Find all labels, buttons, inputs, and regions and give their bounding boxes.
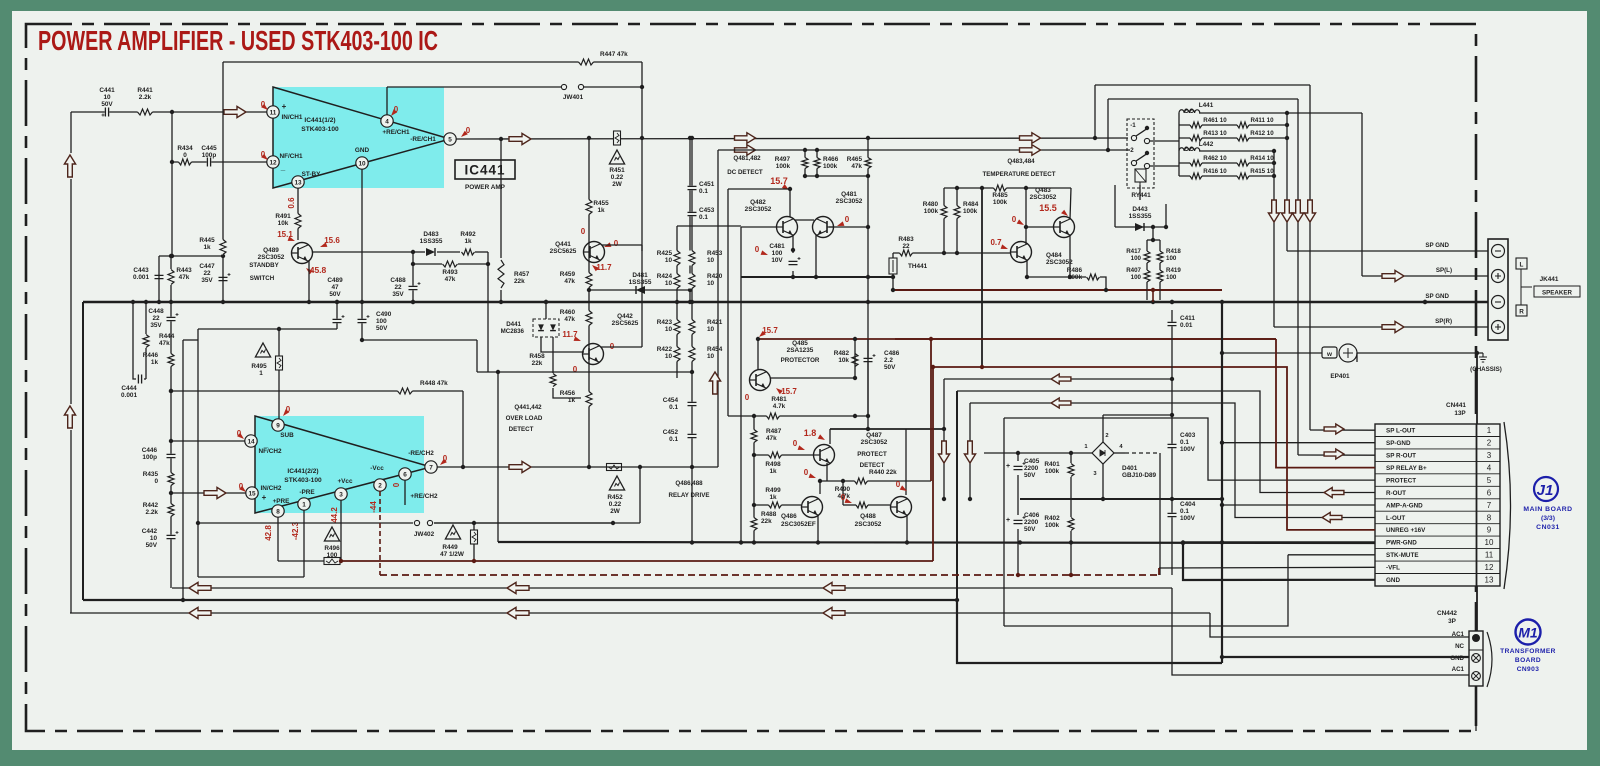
svg-text:Q481: Q481 (841, 191, 857, 198)
wire sp down 1 (1309, 85, 1311, 201)
svg-text:-44: -44 (369, 501, 378, 513)
svg-text:2SC3052: 2SC3052 (1046, 259, 1073, 266)
svg-text:50V: 50V (1024, 526, 1036, 533)
svg-text:R413 10: R413 10 (1203, 130, 1227, 137)
wire Q487 emitter down (826, 463, 828, 481)
wire C490 bottom link (362, 339, 477, 341)
resistor R466 (813, 158, 821, 169)
svg-text:100: 100 (1131, 255, 1142, 262)
resistor R421 (688, 320, 696, 335)
svg-text:STK403-100: STK403-100 (284, 477, 322, 484)
wire x1172 caps (1171, 310, 1173, 575)
wire y329 (198, 328, 337, 330)
wire PWR-GND row (1183, 541, 1375, 543)
junction relay top (1093, 136, 1097, 140)
capacitor C454 (687, 402, 697, 407)
relay RY441 box (1127, 119, 1154, 188)
wire Q484 base row (893, 252, 1010, 254)
wire ladder left x677 (676, 226, 678, 378)
svg-text:_: _ (280, 163, 286, 172)
svg-text:2: 2 (1487, 438, 1492, 447)
resistor R481 (767, 412, 780, 420)
arrow DC detect 1 (735, 133, 756, 144)
connector CN441 table (1375, 424, 1500, 586)
svg-text:47k: 47k (564, 316, 575, 323)
svg-text:1k: 1k (769, 468, 777, 475)
svg-text:PROTECTOR: PROTECTOR (781, 357, 820, 364)
SPEAKER box (1534, 286, 1580, 297)
svg-text:4: 4 (1487, 463, 1492, 472)
wire sp down 3 cont (1297, 201, 1299, 455)
resistor R417 (1143, 251, 1151, 263)
wire CN442 down (1475, 686, 1477, 731)
IC441 name box (455, 160, 515, 179)
svg-text:R423: R423 (657, 319, 673, 326)
svg-text:R466: R466 (823, 156, 839, 163)
svg-text:D401: D401 (1122, 465, 1138, 472)
resistor R419 (1156, 270, 1164, 282)
wire box left x498 (497, 372, 499, 542)
arrow SP L-OUT (1324, 424, 1344, 434)
svg-text:IN/CH2: IN/CH2 (261, 485, 282, 492)
svg-text:100p: 100p (202, 152, 217, 159)
wire relay2 feed (718, 149, 1130, 151)
resistor R454 (688, 347, 696, 362)
wire L-net left (1178, 113, 1180, 176)
svg-text:R425: R425 (657, 250, 673, 257)
svg-text:Q481,482: Q481,482 (733, 155, 761, 162)
capacitor C452 (687, 434, 697, 439)
wire box top y372 (477, 371, 692, 373)
wire maroon to relay row (895, 338, 1276, 340)
svg-text:POWER AMPLIFIER - USED STK403-: POWER AMPLIFIER - USED STK403-100 IC (38, 25, 438, 56)
wire left vertical upper (70, 112, 72, 153)
arrow input CH2 (204, 487, 226, 498)
capacitor C488 (408, 286, 418, 291)
resistor R435 (167, 473, 175, 486)
svg-text:50V: 50V (1024, 472, 1036, 479)
svg-text:2SC3052: 2SC3052 (745, 206, 772, 213)
svg-text:2SA1235: 2SA1235 (787, 347, 814, 354)
arrow output CH1 (509, 133, 531, 144)
svg-text:8: 8 (276, 508, 280, 515)
svg-text:(CHASSIS): (CHASSIS) (1470, 366, 1502, 373)
resistor R462 (1190, 159, 1202, 167)
svg-text:R487: R487 (766, 428, 782, 435)
arrow signal in lower (64, 406, 75, 428)
svg-text:SP GND: SP GND (1425, 293, 1449, 300)
svg-text:IC441(2/2): IC441(2/2) (287, 468, 318, 475)
svg-text:1SS355: 1SS355 (629, 279, 652, 286)
pin 1 -PRE (298, 498, 310, 510)
svg-text:R482: R482 (834, 350, 850, 357)
wire pin7 node (436, 466, 438, 468)
resistor R460 (585, 311, 593, 326)
svg-text:C405: C405 (1024, 458, 1040, 465)
svg-text:NF/CH1: NF/CH1 (279, 153, 303, 160)
resistor R490 (856, 501, 868, 509)
svg-text:R434: R434 (177, 145, 193, 152)
arrow bus2 a (189, 607, 211, 618)
svg-text:11: 11 (1485, 551, 1494, 560)
wire bus y613 (70, 612, 1210, 614)
wire Q481-482 link (795, 219, 814, 221)
jumper JW401 (387, 86, 561, 88)
resistor R415 (1237, 172, 1249, 180)
wire sp down 2 (1297, 99, 1299, 201)
relay contact 1 pole (1131, 135, 1136, 140)
capacitor C406 (1013, 520, 1023, 525)
wire sp down R412 (1286, 138, 1288, 251)
wire sense y379 (944, 378, 1172, 380)
wire y429 feed (830, 428, 944, 430)
wire x718 vertical (717, 150, 719, 467)
svg-text:+: + (282, 102, 287, 111)
wire R407 R419 join (1147, 289, 1160, 291)
svg-text:R493: R493 (442, 269, 458, 276)
wire SP L (1361, 113, 1363, 276)
warning R452 (609, 476, 624, 490)
wire Q482 base (741, 226, 776, 228)
svg-text:SP GND: SP GND (1425, 242, 1449, 249)
wire pin6 stub (404, 480, 406, 505)
relay contact 2 blade (1136, 153, 1148, 161)
svg-text:R407: R407 (1126, 267, 1141, 274)
wire top bus 2 (1108, 98, 1298, 100)
wire to R496 (278, 560, 324, 562)
capacitor C403 (1167, 444, 1177, 449)
junction feedback output (640, 136, 644, 140)
JK441 terminal - (1492, 296, 1505, 309)
pin 10 GND (356, 157, 368, 169)
svg-text:Q484: Q484 (1046, 252, 1062, 259)
resistor R413 (1190, 134, 1202, 142)
wire down to R445 row (171, 162, 173, 256)
svg-text:JW401: JW401 (563, 94, 584, 101)
wire R486 down (1100, 277, 1106, 290)
svg-text:0: 0 (154, 478, 158, 485)
svg-text:RY441: RY441 (1131, 192, 1151, 199)
capacitor C486 (863, 358, 873, 363)
pin 6 (399, 468, 411, 480)
svg-text:R440 22k: R440 22k (869, 469, 897, 476)
wire Q486 collector up (819, 481, 821, 494)
svg-text:10: 10 (665, 257, 673, 264)
resistor R458 (549, 374, 557, 387)
svg-text:50V: 50V (101, 101, 113, 108)
svg-text:50V: 50V (376, 325, 388, 332)
wire x944 temp (943, 188, 945, 253)
svg-text:TH441: TH441 (908, 263, 928, 270)
svg-text:22: 22 (203, 270, 211, 277)
svg-text:44.2: 44.2 (330, 507, 339, 523)
capacitor C448 (166, 317, 176, 322)
wire to pin15 (171, 492, 246, 494)
wire R440 row (820, 480, 931, 482)
svg-text:47k: 47k (445, 276, 456, 283)
wire x754 protect column (753, 416, 755, 542)
arrow DC detect 2 (735, 145, 756, 156)
capacitor C446 (166, 454, 176, 459)
wire left vertical mid (70, 179, 72, 404)
wire R495 top (278, 329, 280, 356)
svg-text:R459: R459 (560, 271, 576, 278)
resistor R492 (462, 248, 475, 256)
wire dc loop left x741 (740, 227, 742, 542)
svg-text:R488: R488 (761, 511, 777, 518)
svg-text:15: 15 (248, 490, 256, 497)
CN442 pin AC1 (1472, 634, 1480, 642)
wire main ground rail y302 (83, 301, 1490, 303)
resistor R416 (1190, 172, 1202, 180)
svg-text:2SC3052: 2SC3052 (855, 521, 882, 528)
svg-text:C411: C411 (1180, 315, 1195, 322)
svg-text:50V: 50V (329, 291, 341, 298)
svg-text:L: L (1520, 262, 1524, 269)
resistor R455 (585, 200, 593, 215)
arrow psu 1 (938, 441, 949, 463)
wire R416 row (1179, 175, 1274, 177)
svg-text:AC1: AC1 (1452, 631, 1465, 638)
wire STK-MUTE row (1288, 554, 1375, 556)
arrow bus1 a (189, 582, 211, 593)
svg-text:R456: R456 (560, 390, 576, 397)
svg-text:C403: C403 (1180, 432, 1196, 439)
svg-text:POWER AMP: POWER AMP (465, 184, 506, 191)
svg-text:IC441: IC441 (464, 163, 505, 178)
wire relay riser 2 (1107, 99, 1109, 150)
svg-text:9: 9 (276, 422, 280, 429)
svg-text:2: 2 (378, 482, 382, 489)
wire SP L-OUT row (1310, 429, 1375, 431)
svg-text:R424: R424 (657, 273, 673, 280)
wire pin2 down dashed (379, 491, 381, 575)
wire contact1 to L441 (1150, 140, 1179, 142)
resistor R448 (398, 387, 413, 395)
svg-text:R465: R465 (847, 156, 863, 163)
wire R458 to Q442 (553, 388, 581, 398)
svg-text:1: 1 (259, 370, 263, 377)
svg-text:R458: R458 (529, 353, 545, 360)
wire Q481 emitter (815, 235, 817, 277)
svg-text:12: 12 (269, 159, 277, 166)
wire R418 branch (1159, 240, 1161, 300)
wire SP R-OUT row (1298, 454, 1375, 456)
relay contact 2 throw (1145, 151, 1149, 155)
svg-text:C406: C406 (1024, 512, 1040, 519)
connector JK441 body (1488, 239, 1508, 340)
wire Q483 base (1026, 226, 1053, 228)
fusible resistor R452 (607, 464, 622, 471)
resistor R443 (167, 270, 175, 285)
wire bus y588 to CN442 (1172, 588, 1470, 675)
arrow to pin11 (224, 106, 246, 117)
svg-text:1k: 1k (769, 494, 777, 501)
svg-text:+PRE: +PRE (273, 498, 291, 505)
wire contact2 to L442 (1150, 165, 1179, 167)
wire output CH1 (456, 138, 1128, 139)
pin 12 NF/CH1 (267, 156, 279, 168)
svg-text:100k: 100k (1045, 468, 1060, 475)
svg-text:2200: 2200 (1024, 465, 1039, 472)
svg-text:0: 0 (581, 227, 586, 236)
capacitor C453 (687, 212, 697, 217)
diode D483 (426, 248, 435, 256)
svg-text:SP(R): SP(R) (1435, 318, 1452, 325)
transistor Q489 (292, 243, 313, 264)
svg-text:Q483,484: Q483,484 (1007, 158, 1035, 165)
svg-text:J1: J1 (1537, 482, 1554, 499)
resistor R457 (500, 139, 502, 258)
wire D441 out 2 (552, 337, 554, 373)
svg-text:Q485: Q485 (792, 340, 808, 347)
arrow speaker 1 (1268, 200, 1279, 222)
svg-text:50V: 50V (146, 542, 158, 549)
wire SP-GND row (1222, 442, 1375, 444)
svg-text:SPEAKER: SPEAKER (1542, 290, 1572, 297)
junction R452 jumper row (611, 521, 615, 525)
junction relay riser2 (1106, 148, 1110, 152)
svg-text:0: 0 (793, 439, 798, 448)
svg-text:2: 2 (1105, 433, 1108, 439)
wire pin1 return y577 (198, 576, 304, 578)
arrow bus1 c (823, 582, 845, 593)
wire ladder right x692 (691, 138, 693, 542)
svg-text:Q441: Q441 (555, 241, 571, 248)
svg-text:R452: R452 (607, 494, 623, 501)
relay contact 2 out (1144, 163, 1149, 168)
svg-text:R417: R417 (1126, 248, 1141, 255)
svg-text:10: 10 (707, 257, 715, 264)
svg-text:R446: R446 (143, 352, 159, 359)
svg-text:R415 10: R415 10 (1250, 168, 1274, 175)
wire x957 drop (956, 391, 958, 600)
svg-text:GND: GND (1450, 655, 1464, 662)
transistor Q484 (1011, 242, 1032, 263)
svg-text:47k: 47k (851, 163, 862, 170)
wire bus y613 to CN442 (1210, 613, 1470, 637)
svg-text:13P: 13P (1454, 410, 1466, 417)
arrow SP R-OUT (1324, 449, 1344, 459)
junction sp gnd (1423, 300, 1427, 304)
svg-text:OVER LOAD: OVER LOAD (506, 415, 543, 422)
wire top bus 1 (1095, 84, 1310, 86)
pin 3 +Vcc (335, 488, 347, 500)
wire Q483 emitter (1069, 235, 1071, 277)
svg-text:R453: R453 (707, 250, 723, 257)
resistor R441 (138, 108, 153, 116)
svg-text:15.6: 15.6 (324, 236, 340, 245)
wire D443 row (1115, 226, 1166, 228)
wire D441 top (545, 302, 547, 319)
resistor R465 (864, 158, 872, 169)
svg-text:R496: R496 (324, 545, 340, 552)
CN442 pin GND crossed (1472, 654, 1481, 663)
svg-text:R441: R441 (137, 87, 153, 94)
wire R-OUT row (957, 391, 1375, 493)
svg-text:100p: 100p (142, 454, 157, 461)
svg-text:0.1: 0.1 (699, 214, 708, 221)
svg-text:0: 0 (896, 480, 901, 489)
svg-text:NC: NC (1455, 643, 1464, 650)
svg-text:-RE/CH1: -RE/CH1 (410, 136, 436, 143)
svg-text:D483: D483 (423, 231, 439, 238)
JK441 terminal - (1492, 245, 1505, 258)
svg-text:SP RELAY B+: SP RELAY B+ (1386, 465, 1427, 472)
wire sp down R462 (1273, 176, 1275, 327)
wire Q486 base (754, 504, 801, 506)
svg-text:100: 100 (1131, 274, 1142, 281)
svg-text:-VFL: -VFL (1386, 565, 1400, 572)
svg-text:_: _ (263, 440, 269, 449)
svg-text:EP401: EP401 (1330, 373, 1350, 380)
svg-text:C446: C446 (142, 447, 158, 454)
wire psu top (984, 452, 1092, 454)
svg-text:Q487: Q487 (866, 432, 882, 439)
svg-text:R422: R422 (657, 346, 673, 353)
wire Q485 collector (757, 339, 759, 370)
wire Q484 collector (1025, 188, 1027, 244)
wire x1004 vertical (1003, 418, 1005, 626)
CN442 pin AC1 crossed (1472, 672, 1481, 681)
arrow relay 2 (1020, 145, 1041, 156)
wire y523 right (434, 522, 640, 524)
svg-text:R462 10: R462 10 (1203, 155, 1227, 162)
wire UNREG row (933, 367, 1375, 530)
svg-text:SP(L): SP(L) (1436, 267, 1452, 274)
wire Q482 emitter (792, 235, 794, 253)
wire L441 out (1199, 112, 1362, 114)
svg-text:4.7k: 4.7k (773, 403, 786, 410)
wire output CH2 (437, 466, 718, 468)
wire R465 x868 (867, 138, 869, 430)
wire C488 branch (412, 264, 414, 302)
svg-text:DC DETECT: DC DETECT (727, 169, 763, 176)
svg-text:22k: 22k (514, 278, 525, 285)
inductor L442 (1179, 148, 1200, 151)
svg-text:GND: GND (1386, 577, 1400, 584)
wire L441 right join (1286, 113, 1288, 138)
wire D401 pin4 (1114, 452, 1125, 454)
transistor Q442 (583, 344, 604, 365)
svg-text:22: 22 (902, 243, 910, 250)
svg-text:L441: L441 (1199, 102, 1214, 109)
svg-text:Q486: Q486 (781, 513, 797, 520)
svg-text:10: 10 (1485, 538, 1494, 547)
svg-text:6: 6 (1487, 488, 1492, 497)
wire x83 vertical (82, 302, 84, 600)
svg-text:100k: 100k (776, 163, 791, 170)
svg-text:7: 7 (429, 464, 433, 471)
svg-text:R421: R421 (707, 319, 723, 326)
svg-text:BOARD: BOARD (1515, 657, 1541, 664)
svg-text:w: w (1326, 351, 1332, 358)
capacitor C481 (788, 261, 798, 266)
svg-text:100k: 100k (1068, 274, 1083, 281)
arrow SP L (1382, 270, 1404, 281)
resistor R488 (750, 518, 758, 531)
wire VFL row (1159, 566, 1375, 569)
svg-text:1k: 1k (464, 238, 472, 245)
wire x970 drop (969, 403, 971, 499)
svg-text:22: 22 (152, 315, 160, 322)
svg-text:2SC5625: 2SC5625 (550, 248, 577, 255)
resistor R425 (673, 251, 681, 266)
pin 13 ST-BY (292, 176, 304, 188)
svg-text:R486: R486 (1067, 267, 1083, 274)
wire box link (183, 339, 198, 341)
svg-text:C404: C404 (1180, 501, 1196, 508)
